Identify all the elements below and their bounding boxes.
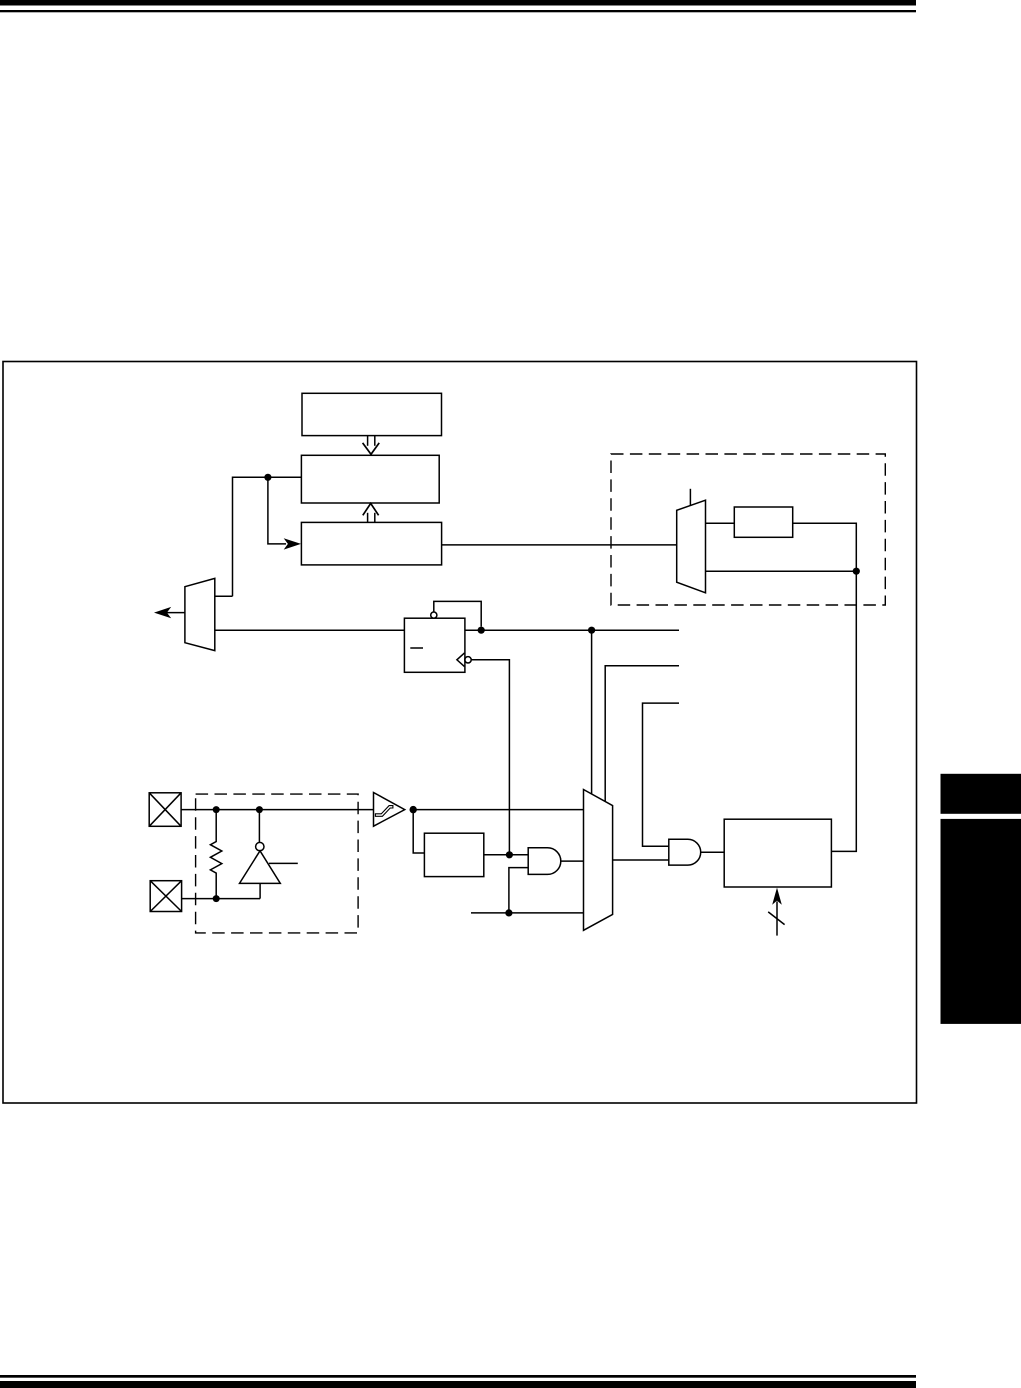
register box B2 (middle) xyxy=(301,455,439,503)
hollow down arrow B1 to B2 xyxy=(363,436,380,454)
prescaler box xyxy=(734,507,792,537)
wire prescaler box to feedback corner xyxy=(793,523,857,571)
select wire 1 into big mux xyxy=(591,630,593,794)
page footer thick rule xyxy=(0,1381,916,1388)
wire feedback down to timer block xyxy=(831,571,856,851)
AND1 lower input wire xyxy=(509,868,528,913)
node junction after Schmitt xyxy=(410,806,417,813)
pin pad T1OSO/T1CKI xyxy=(149,793,181,827)
wire pin1 to Schmitt trigger xyxy=(181,809,373,811)
hysteresis glyph xyxy=(375,806,393,817)
wire junction down to B3 input xyxy=(268,477,286,544)
page header thick rule xyxy=(0,0,916,6)
side index tab lower xyxy=(941,819,1021,1024)
inverter output wire xyxy=(259,883,261,898)
timer control block xyxy=(724,819,831,887)
Schmitt trigger buffer xyxy=(374,793,405,827)
sync prescale box xyxy=(424,833,483,876)
node junction resistor top xyxy=(213,806,220,813)
wire inverter drop xyxy=(258,810,260,843)
hollow up arrow B3 to B2 xyxy=(363,503,379,522)
AND1 output wire xyxy=(561,860,584,862)
internal clock wire xyxy=(471,912,584,914)
big clock source mux xyxy=(584,790,613,931)
figure frame xyxy=(3,362,917,1104)
prescaler mux trapezoid xyxy=(677,500,706,593)
left mux input wire top xyxy=(215,595,233,597)
overbar mark inside flip-flop xyxy=(410,647,423,649)
node junction on internal clock wire xyxy=(505,909,512,916)
node junction on B2 input xyxy=(264,474,271,481)
node junction feedback xyxy=(853,568,860,575)
left mux trapezoid xyxy=(185,578,215,650)
register box B1 (top) xyxy=(302,393,442,435)
side index tab upper xyxy=(941,774,1021,814)
resistor zigzag xyxy=(210,810,221,899)
wire pin2 to inverter xyxy=(182,898,261,900)
node junction AND1 upper input xyxy=(506,851,513,858)
dashed block (oscillator section) xyxy=(196,794,359,933)
AND2 output wire xyxy=(701,851,725,853)
wire from left mux up to B2 xyxy=(233,477,302,596)
AND gate 1 xyxy=(528,848,561,875)
dashed block (prescaler section) xyxy=(611,454,885,605)
control arrow shaft xyxy=(776,902,778,936)
inverter triangle (oscillator) xyxy=(240,851,281,884)
pin pad T1OSI xyxy=(150,881,181,912)
filled arrow into B3 xyxy=(284,538,301,549)
node junction on output xyxy=(478,627,485,634)
bus width slash xyxy=(768,912,784,925)
feedback wire bubble to output xyxy=(434,601,481,626)
wire B3 to prescaler mux xyxy=(442,544,677,546)
select wire 2 stub into big mux xyxy=(605,666,679,801)
inverting bubble top xyxy=(431,612,437,618)
page header thin rule xyxy=(0,10,916,12)
big mux output wire xyxy=(613,859,669,861)
register box B3 (bottom) xyxy=(301,522,441,565)
clock triangle on flip-flop xyxy=(457,653,465,667)
node junction inverter top xyxy=(256,806,263,813)
synchronize det flip-flop box xyxy=(404,618,465,672)
control stub to AND2 xyxy=(643,703,680,846)
wire box to AND1 xyxy=(484,854,528,856)
wire Schmitt to big mux xyxy=(413,809,583,811)
inverter bubble xyxy=(256,842,264,850)
left mux output wire xyxy=(167,612,185,614)
wire mux lower input xyxy=(706,570,857,572)
AND gate 2 xyxy=(669,839,701,865)
node junction resistor bottom xyxy=(213,895,220,902)
clock wire down to AND1 input xyxy=(471,660,509,855)
control arrow head xyxy=(772,888,782,905)
left mux input wire from sync flip-flop xyxy=(215,629,405,631)
prescaler mux select stub xyxy=(689,489,691,506)
wire down to sync prescale box xyxy=(413,810,424,853)
filled arrow left mux output xyxy=(154,607,171,618)
page footer thin rule xyxy=(0,1375,916,1378)
node junction to big mux select xyxy=(588,627,595,634)
wire mux to prescaler box xyxy=(706,522,735,524)
oscillator enable stub xyxy=(269,862,298,864)
clock inverting bubble xyxy=(465,657,471,663)
flip-flop output wire xyxy=(465,629,679,631)
